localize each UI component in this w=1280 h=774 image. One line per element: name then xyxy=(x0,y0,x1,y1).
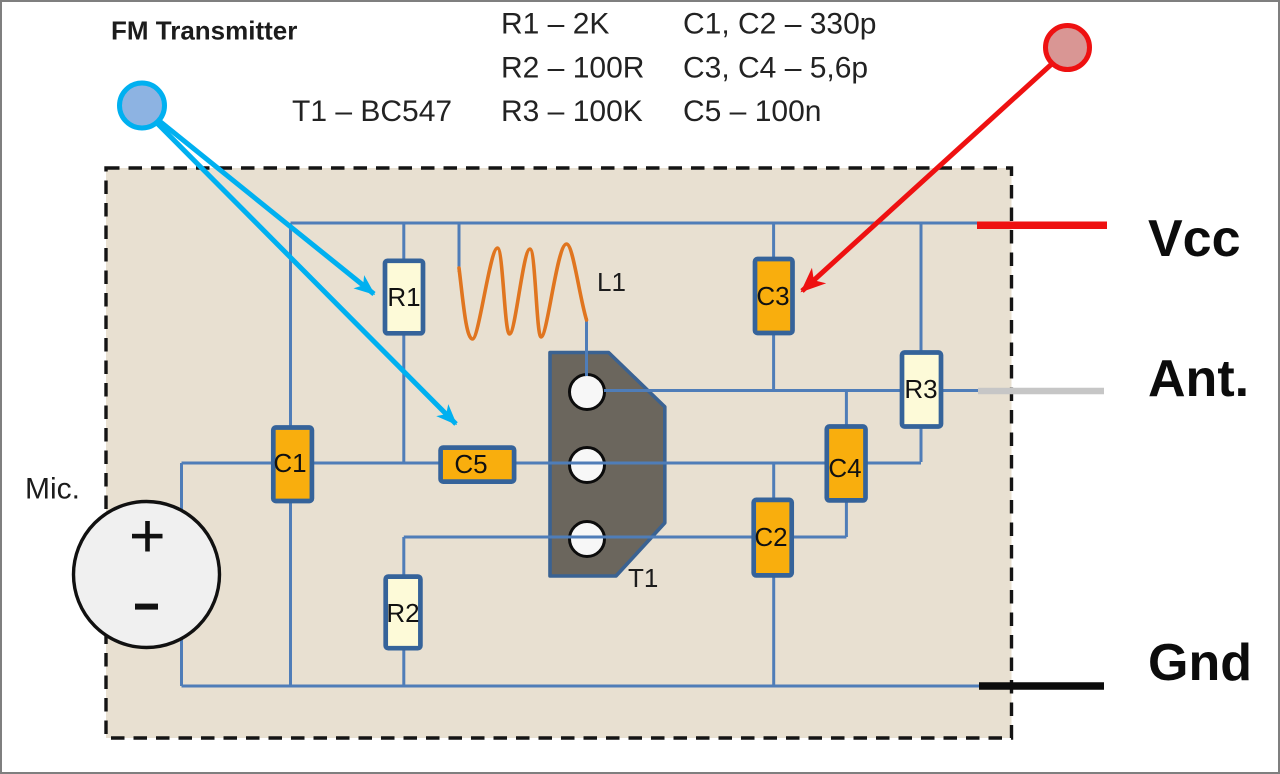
wire: R2 vertical xyxy=(402,537,405,686)
svg-text:Ant.: Ant. xyxy=(1148,350,1249,408)
Ant gray stub xyxy=(978,388,1104,395)
svg-text:T1: T1 xyxy=(628,563,658,593)
pin 1 collector circle xyxy=(570,375,605,410)
resistor R2 xyxy=(386,577,421,649)
svg-text:C1: C1 xyxy=(273,448,306,478)
wire: top Vcc rail xyxy=(291,222,979,225)
wire: C4 vertical xyxy=(845,391,848,538)
Gnd black stub xyxy=(979,682,1104,690)
svg-text:Gnd: Gnd xyxy=(1148,634,1252,692)
wire: R3 vertical branch xyxy=(920,223,923,462)
wire: C3 vertical branch xyxy=(772,223,775,391)
svg-text:C3, C4 – 5,6p: C3, C4 – 5,6p xyxy=(683,52,868,85)
wire: mic vertical xyxy=(180,463,183,686)
wire: emitter row over pin xyxy=(518,462,826,465)
svg-text:C1, C2 – 330p: C1, C2 – 330p xyxy=(683,8,876,41)
svg-text:R1: R1 xyxy=(387,282,420,312)
wire: left vertical to C1 xyxy=(289,223,292,686)
wire: L1 left stub xyxy=(458,223,461,272)
circuit board dashed frame xyxy=(106,168,1012,738)
wire: L1 right stub to T1 collector xyxy=(585,318,588,394)
svg-text:C5: C5 xyxy=(454,449,487,479)
red callout arrow to C3 xyxy=(802,61,1055,291)
red callout circle xyxy=(1046,26,1090,70)
svg-text:FM Transmitter: FM Transmitter xyxy=(111,16,297,46)
svg-text:C2: C2 xyxy=(754,522,787,552)
Vcc red stub xyxy=(977,222,1107,230)
callout arrow to C5 xyxy=(142,108,456,424)
microphone symbol xyxy=(74,502,220,648)
wire: bottom pin row (R2-T1-C2-C4) xyxy=(404,536,847,539)
svg-text:Mic.: Mic. xyxy=(25,473,80,506)
svg-text:C3: C3 xyxy=(756,281,789,311)
blue callout circle xyxy=(120,83,165,128)
callout arrow to R1 xyxy=(142,107,374,294)
svg-text:C4: C4 xyxy=(828,453,861,483)
wire: collector row to antenna xyxy=(587,389,978,392)
svg-text:R2: R2 xyxy=(386,598,419,628)
wire: collector row from pin over body xyxy=(604,389,700,392)
svg-text:R3: R3 xyxy=(904,374,937,404)
wire: L1 stub into collector pin xyxy=(585,350,588,376)
svg-text:R2 – 100R: R2 – 100R xyxy=(501,52,644,85)
svg-text:R1 – 2K: R1 – 2K xyxy=(501,8,609,41)
wire: C2 vertical xyxy=(772,463,775,686)
capacitor C5 xyxy=(441,448,514,482)
wire: ground rail xyxy=(182,685,980,688)
pin 2 base circle xyxy=(570,448,605,483)
svg-text:C5 – 100n: C5 – 100n xyxy=(683,95,821,128)
inductor L1 coil xyxy=(459,244,587,339)
svg-text:R3 – 100K: R3 – 100K xyxy=(501,95,643,128)
wire: emitter/base row (C1-C5-T1-C4-R3) xyxy=(182,462,922,465)
capacitor C4 xyxy=(827,427,866,501)
capacitor C2 xyxy=(754,500,792,576)
svg-text:L1: L1 xyxy=(597,267,626,297)
svg-text:T1 – BC547: T1 – BC547 xyxy=(292,95,452,128)
wire: bottom row over pin xyxy=(423,536,752,539)
capacitor C3 xyxy=(755,259,793,333)
resistor R3 xyxy=(902,353,941,427)
pin 3 emitter circle xyxy=(570,522,605,557)
svg-text:Vcc: Vcc xyxy=(1148,210,1241,268)
transistor T1 body xyxy=(550,353,665,577)
capacitor C1 xyxy=(273,428,312,502)
wire: R1 vertical branch xyxy=(402,223,405,463)
resistor R1 xyxy=(385,261,423,334)
